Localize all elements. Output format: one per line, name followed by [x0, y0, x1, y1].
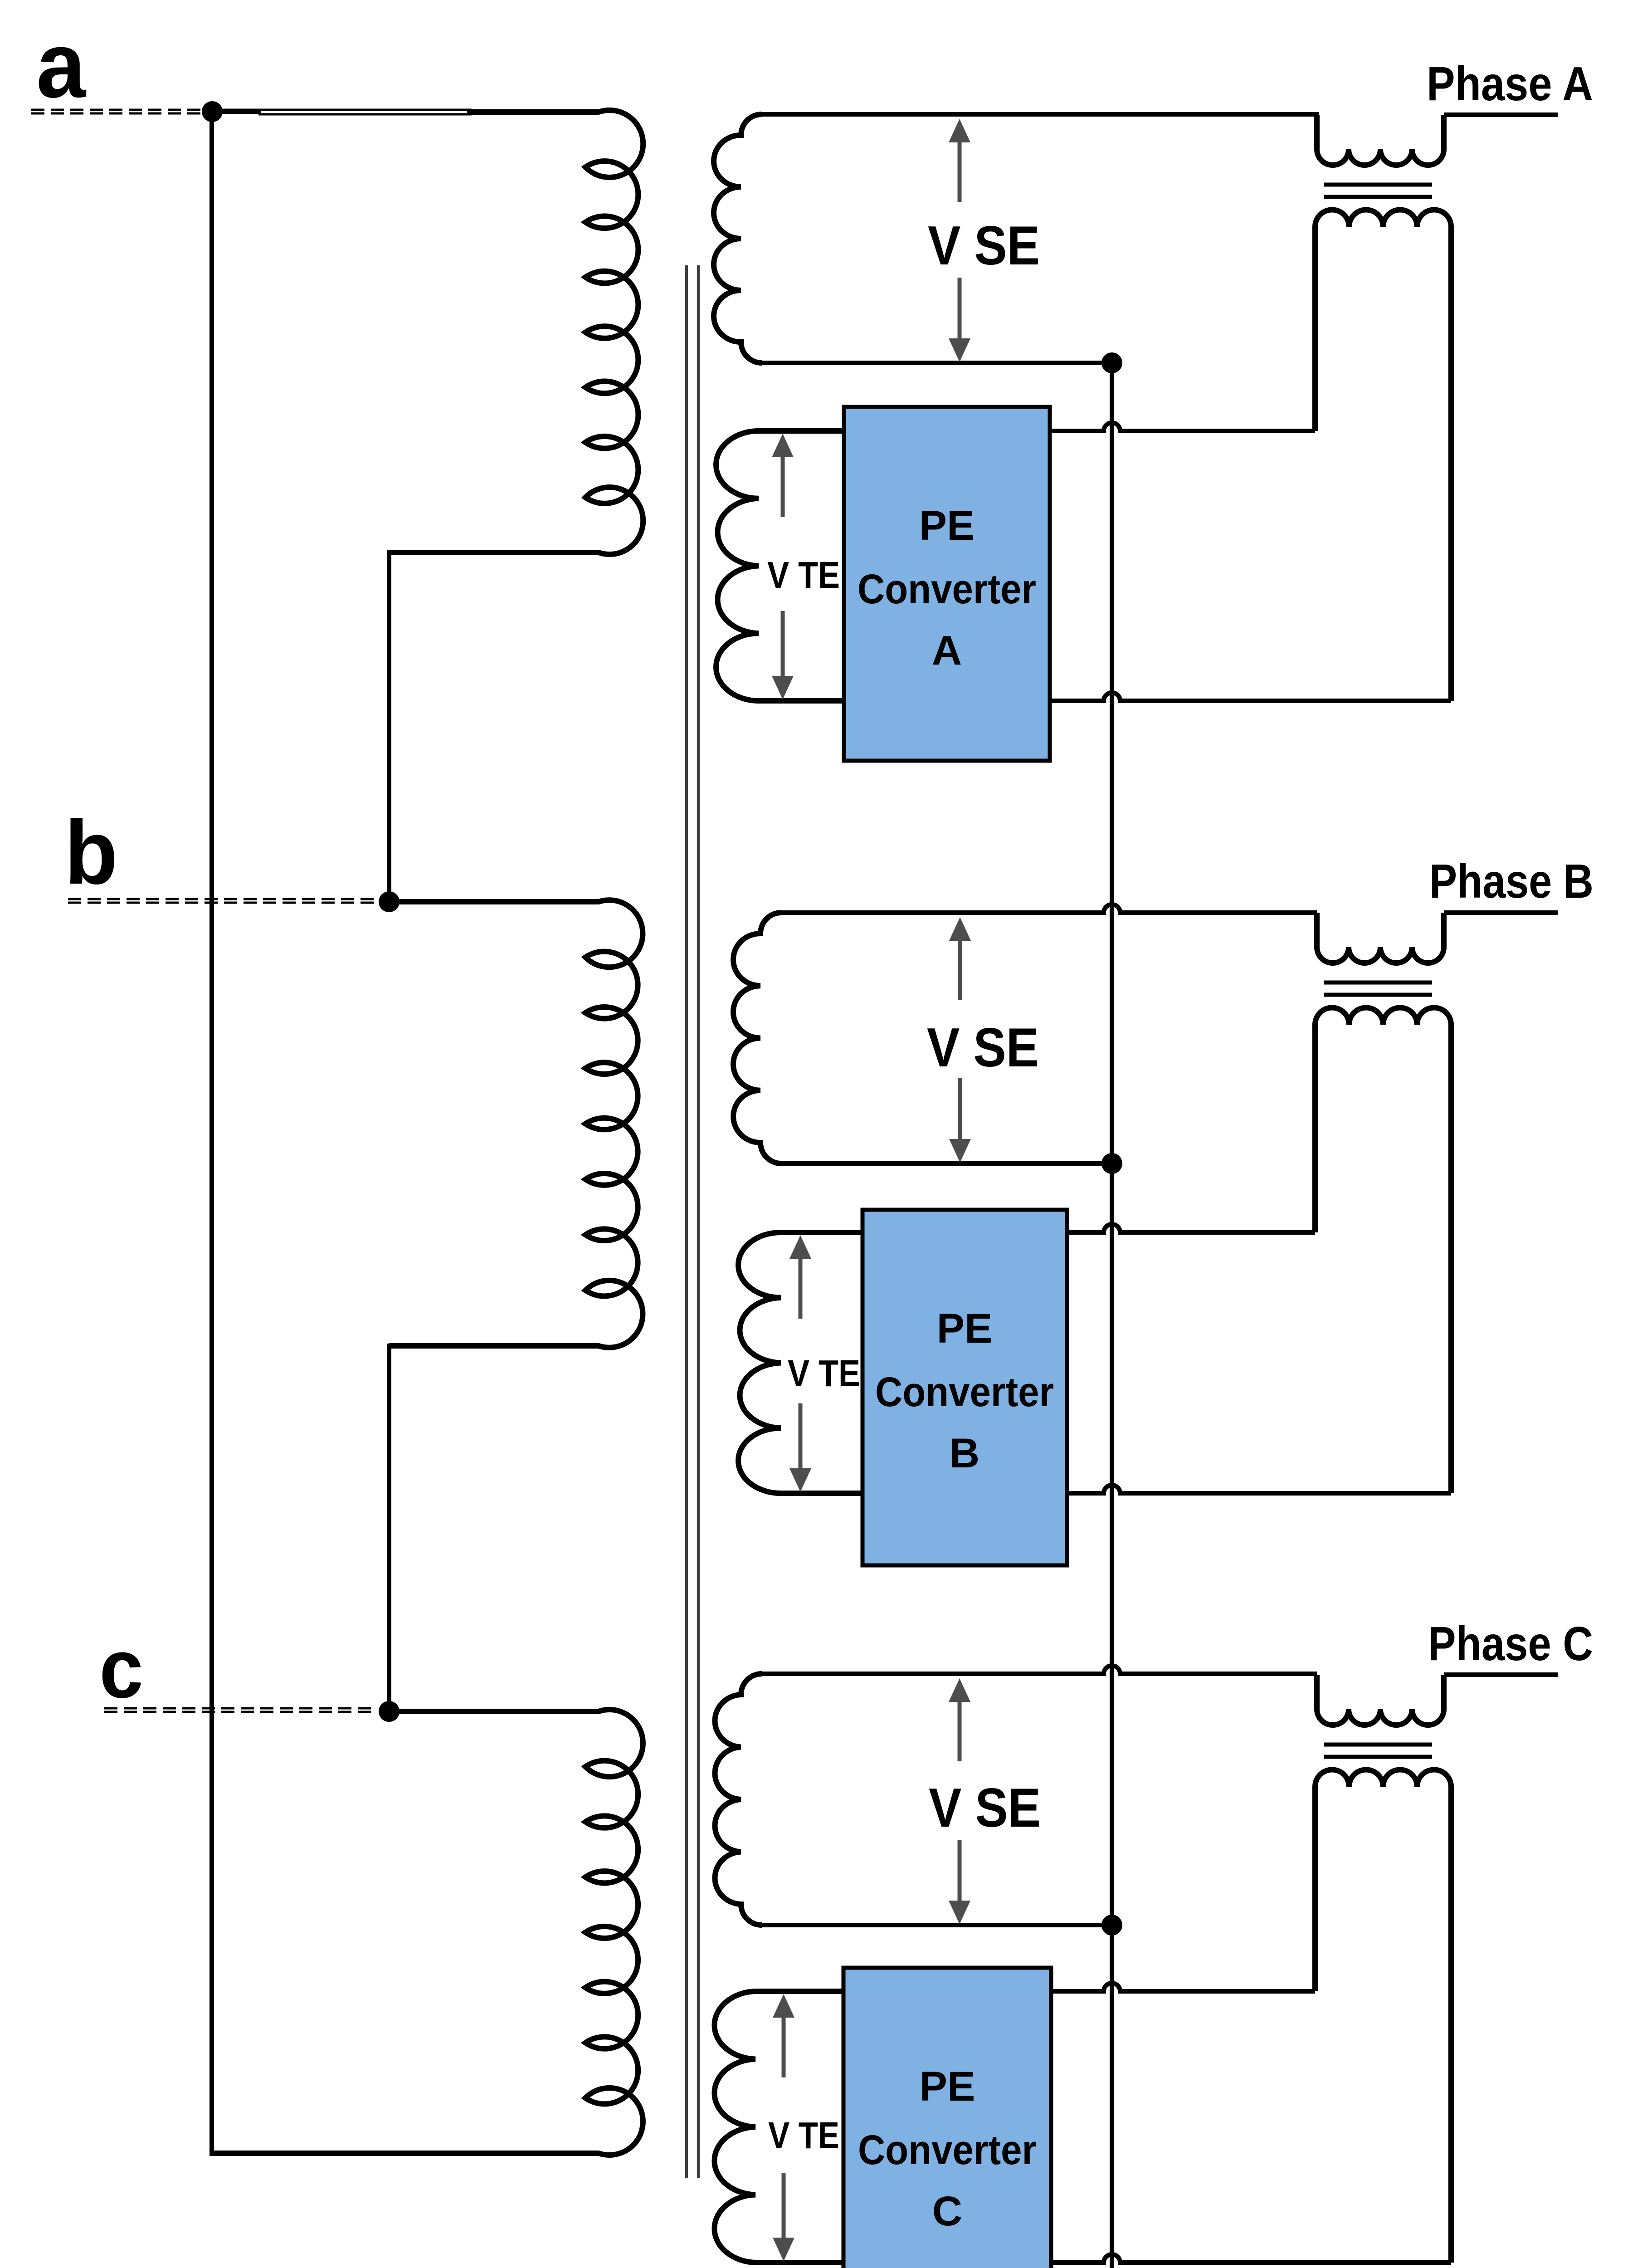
V TE winding phase B: [738, 1232, 863, 1493]
PE Converter A box: [844, 407, 1050, 761]
V TE arrow down phase B: [789, 1468, 811, 1492]
dashed leader c: [104, 1707, 377, 1710]
PE Converter C box: [843, 1968, 1051, 2268]
V TE winding phase C: [714, 1991, 843, 2263]
junction dot V SE A / bus: [1101, 352, 1122, 373]
V TE arrow up phase C: [773, 1994, 794, 2018]
V SE arrow down phase A: [949, 338, 970, 362]
primary winding b-c: [389, 900, 643, 1348]
wire PE Converter A bottom output (hop over bus): [1050, 693, 1451, 701]
wire a to primary coil (lower): [258, 113, 472, 116]
junction dot V SE B / bus: [1101, 1153, 1122, 1174]
svg-text:PE: PE: [937, 1305, 993, 1352]
V TE arrow up phase A: [772, 434, 794, 457]
primary winding c-a: [389, 1710, 643, 2155]
V TE arrow down phase C: [773, 2238, 794, 2261]
svg-text:c: c: [99, 1622, 143, 1716]
wire PE Converter B top output (hop over bus): [1067, 1224, 1315, 1232]
svg-text:B: B: [950, 1430, 980, 1476]
isolation transformer core phase B: [1324, 981, 1432, 985]
isolation transformer secondary coil phase C: [1315, 1770, 1451, 2263]
V SE winding phase C: [715, 1674, 762, 1925]
svg-text:Converter: Converter: [875, 1369, 1054, 1415]
V SE arrow up phase A: [949, 119, 970, 142]
primary winding a-b: [467, 110, 643, 554]
node c: [379, 1701, 400, 1722]
wire V SE C bottom to bus: [759, 1923, 1112, 1927]
neutral bus vertical: [1110, 363, 1114, 2268]
V TE arrow down phase A: [772, 676, 794, 699]
V SE winding phase B: [733, 913, 781, 1163]
svg-text:a: a: [36, 13, 87, 117]
wire a stub: [210, 109, 261, 114]
isolation transformer core phase A: [1324, 183, 1432, 187]
V SE arrow up phase B: [949, 917, 971, 941]
V SE arrow down phase B: [949, 1139, 971, 1163]
wire V SE A top to transformer: [759, 112, 1319, 117]
wire vertical to node c: [387, 1344, 391, 1711]
svg-text:A: A: [932, 627, 962, 674]
wire PE Converter C bottom output (hop over bus): [1051, 2254, 1451, 2263]
wire a to primary coil (upper): [210, 109, 472, 111]
wire phase C output terminal: [1444, 1672, 1558, 1677]
wire PE Converter C top output (hop over bus): [1051, 1983, 1315, 1991]
isolation transformer primary coil phase B: [1317, 913, 1444, 963]
junction dot V SE C / bus: [1101, 1915, 1122, 1936]
svg-text:Phase B: Phase B: [1429, 855, 1594, 908]
wire coil C bottom return: [210, 2151, 391, 2156]
svg-text:V SE: V SE: [929, 1777, 1041, 1838]
wire V SE A bottom to bus: [759, 361, 1112, 365]
wire phase A output terminal: [1444, 112, 1558, 117]
node b: [379, 891, 400, 912]
wire V SE B top to transformer (hop over bus): [779, 904, 1317, 913]
wire vertical to node b: [387, 550, 391, 902]
svg-text:V SE: V SE: [927, 1017, 1039, 1078]
transformer core (double bar): [685, 265, 688, 2178]
PE Converter B box: [863, 1210, 1067, 1565]
V SE winding phase A: [714, 114, 762, 363]
svg-text:b: b: [64, 802, 118, 903]
isolation transformer secondary coil phase A: [1315, 210, 1451, 701]
wire V SE C top to transformer (hop over bus): [759, 1666, 1317, 1674]
svg-text:V TE: V TE: [768, 2114, 839, 2156]
wire phase B output terminal: [1444, 910, 1558, 915]
svg-text:PE: PE: [919, 503, 975, 549]
V TE arrow up phase B: [789, 1235, 811, 1259]
isolation transformer primary coil phase C: [1317, 1675, 1444, 1725]
isolation transformer secondary coil phase B: [1315, 1008, 1451, 1494]
isolation transformer core phase C: [1324, 1743, 1432, 1747]
svg-text:PE: PE: [920, 2063, 975, 2110]
svg-text:Converter: Converter: [858, 2127, 1037, 2173]
svg-text:C: C: [932, 2188, 962, 2234]
V SE arrow down phase C: [949, 1901, 970, 1924]
V TE winding phase A: [716, 431, 844, 701]
wire PE Converter B bottom output (hop over bus): [1067, 1485, 1451, 1493]
V SE arrow up phase C: [949, 1678, 970, 1702]
dashed leader b: [68, 898, 377, 900]
svg-text:Phase A: Phase A: [1427, 57, 1593, 111]
svg-text:V SE: V SE: [928, 215, 1040, 276]
wire PE Converter A top output (hop over bus): [1050, 423, 1315, 431]
isolation transformer primary coil phase A: [1317, 115, 1444, 165]
dashed leader a: [31, 109, 202, 111]
wire left vertical a-net: [210, 109, 214, 2156]
wire V SE B bottom to bus: [779, 1161, 1112, 1166]
svg-text:Converter: Converter: [858, 566, 1036, 612]
wire coil A bottom lead: [389, 550, 469, 555]
node a: [202, 101, 223, 122]
svg-text:V TE: V TE: [788, 1352, 860, 1394]
svg-text:Phase C: Phase C: [1428, 1617, 1593, 1671]
svg-text:V TE: V TE: [767, 554, 840, 596]
